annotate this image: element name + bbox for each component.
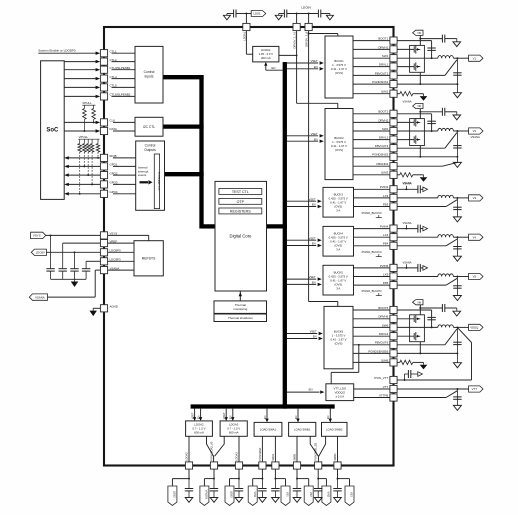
svg-text:VPULL: VPULL xyxy=(82,101,92,105)
svg-text:VIN: VIN xyxy=(417,301,421,304)
svg-text:VTT: VTT xyxy=(472,387,478,391)
svg-text:SWA1: SWA1 xyxy=(271,453,275,461)
svg-text:VSANA: VSANA xyxy=(35,295,45,299)
svg-text:Outputs: Outputs xyxy=(144,148,156,152)
svg-text:VSANA: VSANA xyxy=(471,135,480,139)
svg-text:VSET: VSET xyxy=(310,330,317,334)
svg-text:600 mA: 600 mA xyxy=(229,431,239,435)
svg-text:± 0.5 A: ± 0.5 A xyxy=(335,394,344,398)
svg-text:FB4: FB4 xyxy=(383,242,389,246)
svg-text:EN: EN xyxy=(309,388,313,392)
svg-text:(OVS): (OVS) xyxy=(335,148,343,152)
svg-text:TEST CTL: TEST CTL xyxy=(232,190,249,194)
svg-text:EN: EN xyxy=(312,203,316,207)
svg-text:VPULL: VPULL xyxy=(79,135,89,139)
svg-text:SW2: SW2 xyxy=(382,127,389,131)
svg-text:V1: V1 xyxy=(473,56,477,60)
svg-text:VS2: VS2 xyxy=(309,492,312,497)
svg-text:EN: EN xyxy=(272,66,276,70)
svg-text:EN: EN xyxy=(312,242,316,246)
svg-text:VSET: VSET xyxy=(222,412,226,419)
svg-text:LOAD SWB2: LOAD SWB2 xyxy=(326,427,343,431)
svg-text:VSANA: VSANA xyxy=(402,100,411,104)
svg-text:VIN: VIN xyxy=(417,105,421,108)
svg-text:EN: EN xyxy=(312,281,316,285)
svg-text:LX5: LX5 xyxy=(383,272,389,276)
svg-text:VS3: VS3 xyxy=(350,492,353,497)
svg-text:VINLDO: VINLDO xyxy=(205,490,208,499)
svg-text:<PGND_BUCK4>: <PGND_BUCK4> xyxy=(361,250,383,254)
svg-text:LDOA2: LDOA2 xyxy=(184,452,188,461)
svg-text:VIN: VIN xyxy=(417,32,421,35)
svg-text:FBGND2: FBGND2 xyxy=(376,162,388,166)
svg-text:VSET: VSET xyxy=(309,275,316,279)
svg-text:V5: V5 xyxy=(473,275,477,279)
svg-text:ILIM6: ILIM6 xyxy=(381,358,389,362)
svg-text:EN: EN xyxy=(294,415,298,419)
svg-text:SW1: SW1 xyxy=(382,54,389,58)
svg-text:EN: EN xyxy=(314,65,318,69)
svg-text:System Enable or LDO5P0: System Enable or LDO5P0 xyxy=(38,49,75,53)
svg-text:DRVH2: DRVH2 xyxy=(378,118,388,122)
svg-text:VDDQ: VDDQ xyxy=(470,326,479,330)
svg-text:SWB1: SWB1 xyxy=(292,453,296,461)
svg-text:PVIN5: PVIN5 xyxy=(380,264,389,268)
svg-text:monitoring: monitoring xyxy=(233,307,247,311)
svg-text:DRV5V_2_A1: DRV5V_2_A1 xyxy=(293,31,297,48)
svg-text:V3: V3 xyxy=(473,196,477,200)
svg-text:PGNDSNS1: PGNDSNS1 xyxy=(372,80,388,84)
svg-text:LDOA1: LDOA1 xyxy=(242,31,246,40)
svg-text:EN: EN xyxy=(326,415,330,419)
svg-text:EN: EN xyxy=(229,415,233,419)
svg-text:EN: EN xyxy=(313,335,317,339)
svg-text:INT/SLEEP CTL: INT/SLEEP CTL xyxy=(157,172,161,191)
svg-text:V4: V4 xyxy=(473,235,477,239)
svg-text:OTP: OTP xyxy=(237,200,245,204)
svg-text:FBVOUT6: FBVOUT6 xyxy=(375,341,389,345)
svg-text:ILIM2: ILIM2 xyxy=(381,171,389,175)
svg-text:DRVH1: DRVH1 xyxy=(378,45,388,49)
svg-text:PVINSWA1: PVINSWA1 xyxy=(258,447,262,461)
svg-text:VSET: VSET xyxy=(311,59,318,63)
svg-text:VSANA: VSANA xyxy=(402,221,411,225)
svg-text:LX3: LX3 xyxy=(383,194,389,198)
svg-text:PGNDSNS2: PGNDSNS2 xyxy=(372,153,388,157)
svg-text:FB3: FB3 xyxy=(383,202,389,206)
svg-text:BOOT2: BOOT2 xyxy=(378,110,388,114)
svg-text:VSYS: VSYS xyxy=(33,234,41,238)
svg-text:Control: Control xyxy=(145,144,156,148)
svg-text:PVIN3: PVIN3 xyxy=(380,185,389,189)
svg-text:VSET: VSET xyxy=(311,132,318,136)
svg-text:LDO5V: LDO5V xyxy=(301,6,312,10)
svg-text:VSANA: VSANA xyxy=(402,260,411,264)
svg-text:PVIN_VTT: PVIN_VTT xyxy=(374,376,388,380)
svg-text:VS1: VS1 xyxy=(286,492,289,497)
svg-text:VSANA: VSANA xyxy=(402,182,411,186)
svg-text:VSET: VSET xyxy=(309,236,316,240)
svg-text:REFSYS: REFSYS xyxy=(142,257,156,261)
svg-text:LX4: LX4 xyxy=(383,233,389,237)
svg-text:LDO3: LDO3 xyxy=(230,491,233,498)
svg-text:<PGND_BUCK3>: <PGND_BUCK3> xyxy=(361,211,383,215)
svg-text:LDOA3: LDOA3 xyxy=(234,452,238,461)
svg-text:VIN1: VIN1 xyxy=(253,491,256,497)
svg-text:REGISTERS: REGISTERS xyxy=(230,210,251,214)
svg-text:3 A: 3 A xyxy=(336,286,340,290)
svg-text:BOOT6: BOOT6 xyxy=(378,306,388,310)
svg-text:SoC: SoC xyxy=(46,128,59,134)
svg-text:SW6: SW6 xyxy=(382,323,389,327)
svg-text:PVINLDOA2_A3: PVINLDOA2_A3 xyxy=(209,441,213,461)
svg-text:<PGND_BUCK5>: <PGND_BUCK5> xyxy=(361,289,383,293)
svg-text:V2: V2 xyxy=(473,129,477,133)
svg-text:VTTFB: VTTFB xyxy=(379,393,388,397)
svg-text:3 A: 3 A xyxy=(336,208,340,212)
svg-text:PVINSWB1_B2: PVINSWB1_B2 xyxy=(314,442,318,461)
svg-text:ILIM1: ILIM1 xyxy=(381,90,389,94)
svg-text:Inputs: Inputs xyxy=(145,75,154,79)
svg-text:600 mA: 600 mA xyxy=(194,431,204,435)
svg-text:(OVS): (OVS) xyxy=(335,71,343,75)
svg-text:Thermal shutdown: Thermal shutdown xyxy=(228,316,253,320)
svg-text:LDO1: LDO1 xyxy=(253,12,261,16)
svg-text:VTT: VTT xyxy=(383,385,389,389)
svg-text:I2C CTL: I2C CTL xyxy=(143,125,155,129)
svg-text:3 A: 3 A xyxy=(336,247,340,251)
svg-text:Digital Core: Digital Core xyxy=(230,233,253,238)
svg-text:DRVL1: DRVL1 xyxy=(379,63,389,67)
svg-text:EN: EN xyxy=(196,415,200,419)
svg-text:VSET: VSET xyxy=(190,412,194,419)
svg-text:VSET: VSET xyxy=(309,197,316,201)
svg-text:LOAD SWA1: LOAD SWA1 xyxy=(260,427,277,431)
svg-text:Control: Control xyxy=(144,70,155,74)
svg-text:DRVH6: DRVH6 xyxy=(378,315,388,319)
svg-text:EN: EN xyxy=(263,415,267,419)
svg-text:AGND: AGND xyxy=(110,305,118,309)
svg-text:LOAD SWB1: LOAD SWB1 xyxy=(294,427,311,431)
svg-text:DRVL2: DRVL2 xyxy=(379,136,389,140)
svg-text:EN: EN xyxy=(314,137,318,141)
svg-text:FBVOUT1: FBVOUT1 xyxy=(375,71,389,75)
svg-text:(OVS): (OVS) xyxy=(335,342,343,346)
svg-text:events: events xyxy=(138,173,147,177)
svg-text:BOOT1: BOOT1 xyxy=(378,37,388,41)
svg-text:FBVOUT2: FBVOUT2 xyxy=(375,144,389,148)
svg-text:PVIN4: PVIN4 xyxy=(380,225,389,229)
svg-text:FB5: FB5 xyxy=(383,281,389,285)
svg-text:PGNDSENSE6: PGNDSENSE6 xyxy=(368,349,388,353)
svg-text:LDO2: LDO2 xyxy=(173,491,176,498)
svg-text:VIN2: VIN2 xyxy=(327,491,330,497)
svg-text:LDO5V: LDO5V xyxy=(36,250,45,254)
svg-text:DRVL6: DRVL6 xyxy=(379,332,389,336)
svg-text:SWB2: SWB2 xyxy=(333,453,337,461)
svg-text:200 mA: 200 mA xyxy=(261,56,271,60)
